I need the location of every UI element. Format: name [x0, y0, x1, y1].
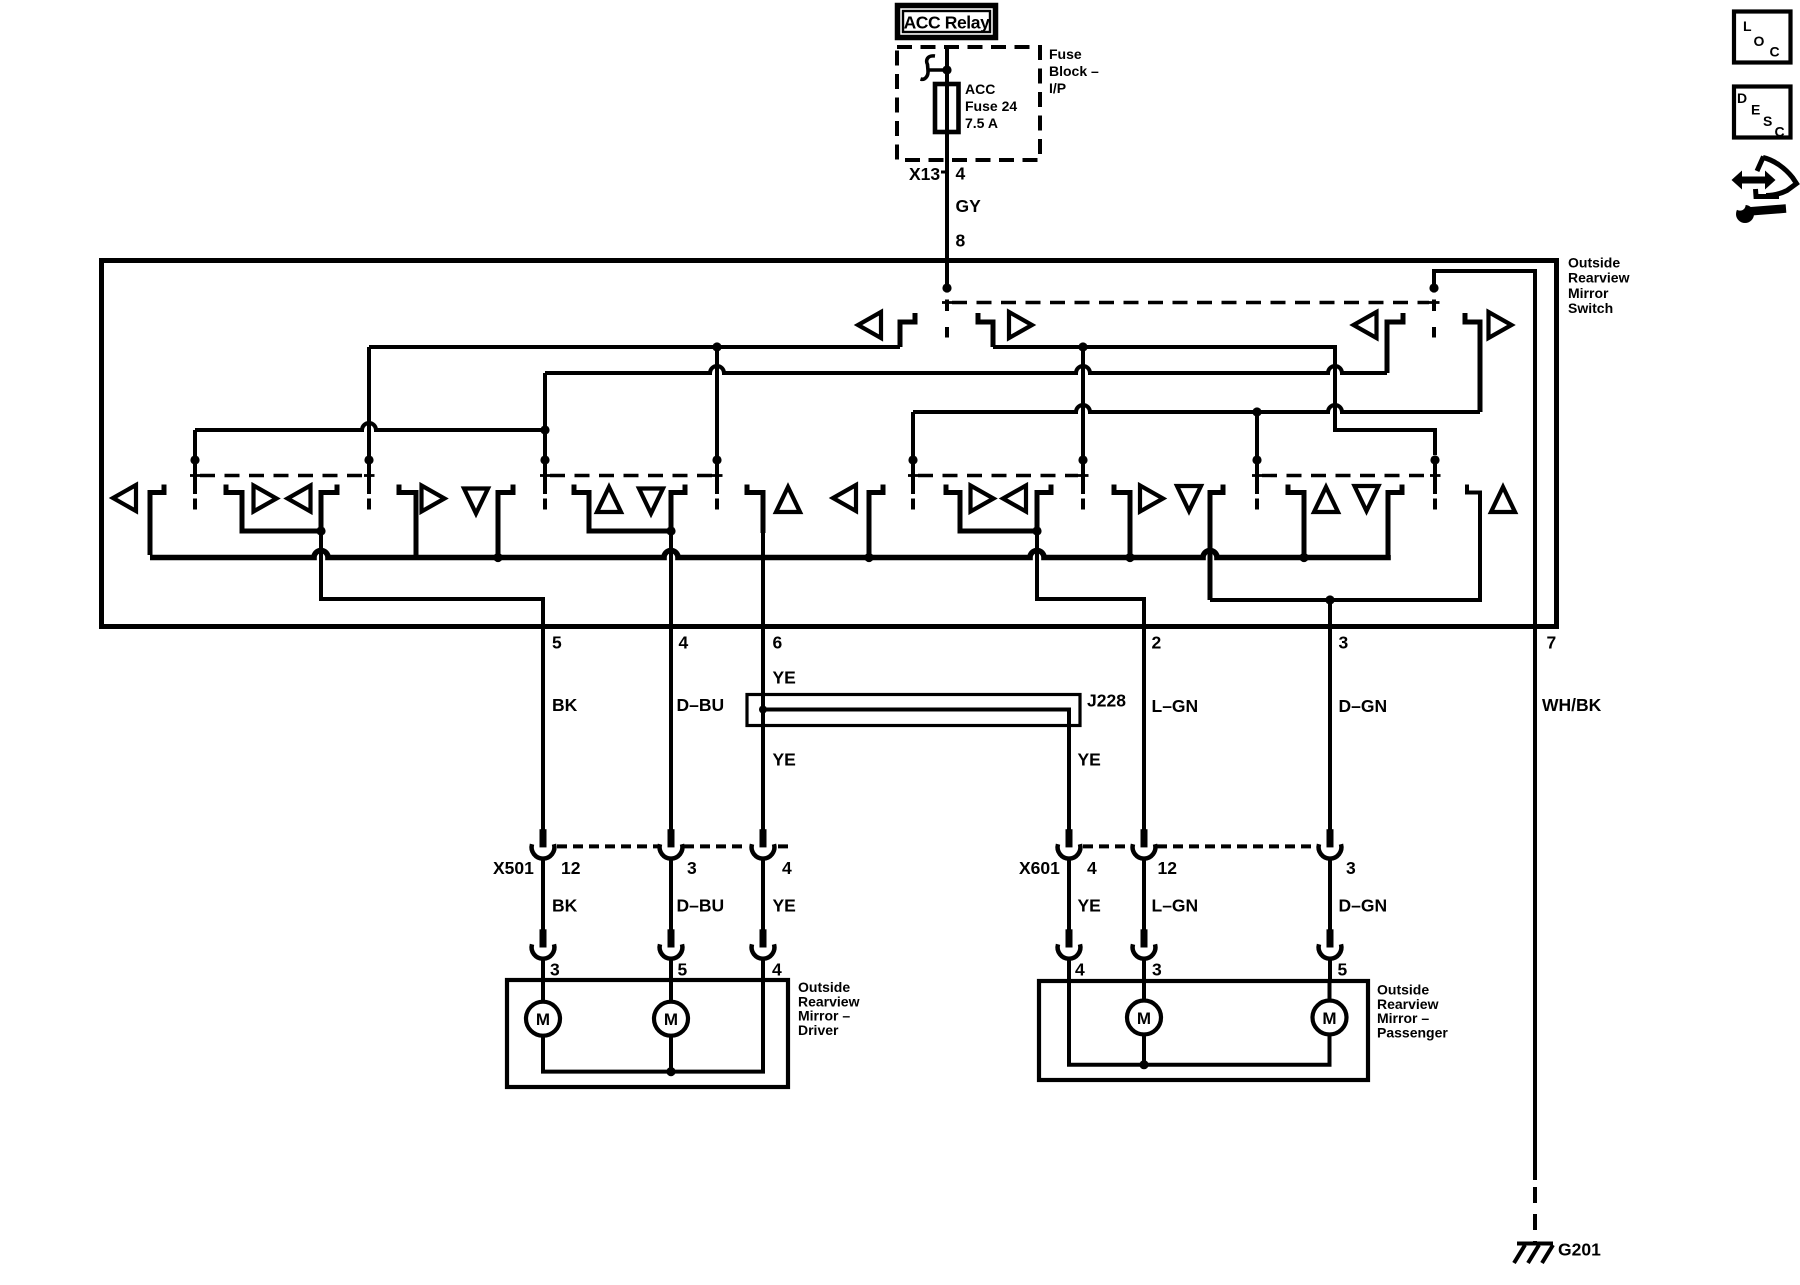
relay contact switch arm [921, 56, 948, 79]
mirror connector terminal at 763 [752, 929, 775, 958]
wire riser pole P5 [911, 412, 915, 457]
ground G201 [1514, 1244, 1553, 1264]
svg-text:E: E [1751, 102, 1760, 118]
svg-text:GY: GY [956, 196, 982, 216]
ACC Relay label box [898, 6, 996, 38]
svg-text:Fuse 24: Fuse 24 [965, 98, 1017, 114]
svg-text:3: 3 [1339, 633, 1349, 653]
junction node pin3 [1325, 595, 1334, 604]
svg-text:12: 12 [1158, 858, 1178, 878]
wire segment to mirror connector at 1069 [1067, 859, 1071, 931]
label ACC Fuse 24 7.5 A [965, 81, 1017, 131]
junction node pin5 takeoff [316, 526, 325, 535]
triangle arrow up (passenger single) [1491, 487, 1515, 512]
wire net E: P1 to P3 (y430) [195, 423, 545, 430]
triangle arrow down [639, 489, 663, 514]
triangle arrow right [1140, 486, 1163, 512]
junction node on fuse wire [942, 65, 951, 74]
svg-text:2: 2 [1152, 633, 1162, 653]
wire pin 7 vertical WH/BK [1533, 269, 1537, 1180]
svg-text:D–GN: D–GN [1339, 696, 1388, 716]
svg-text:BK: BK [552, 896, 578, 916]
svg-text:M: M [1322, 1009, 1336, 1028]
wire riser pole P2 [367, 347, 371, 457]
fuse ACC Fuse 24 7.5 A [935, 84, 959, 132]
wire stub into mirror at 1330 [1328, 959, 1332, 982]
label Outside Rearview Mirror - Driver [798, 979, 860, 1038]
coupling P3-P4 dashed link [550, 474, 712, 477]
triangle arrow down [1177, 486, 1201, 511]
wire stub into mirror at 671 [669, 959, 673, 982]
svg-text:D–BU: D–BU [677, 695, 725, 715]
wire segment to mirror connector at 1144 [1142, 859, 1146, 931]
connector X501 dashed gang line [557, 844, 792, 848]
wire to pin 4 D-BU [669, 531, 673, 830]
svg-text:L–GN: L–GN [1152, 696, 1199, 716]
pole of left top switch (from fuse) [942, 283, 953, 337]
svg-text:Rearview: Rearview [1568, 270, 1630, 286]
wire riser pole P1 [193, 430, 197, 457]
wire net D: P5/P7 to top-right pair right contact (y412) [913, 405, 1480, 412]
triangle arrow left [288, 486, 311, 512]
svg-text:YE: YE [1078, 896, 1101, 916]
wire net A: P2/P4 to top-left contact (y347 left) [369, 345, 900, 349]
Outside Rearview Mirror Switch box [102, 261, 1557, 627]
svg-text:4: 4 [956, 164, 966, 184]
wire pass motor2 top [1328, 983, 1332, 1001]
switch contact right of top-right pair [1465, 313, 1480, 412]
svg-text:7: 7 [1547, 633, 1557, 653]
svg-text:ACC Relay: ACC Relay [904, 13, 991, 33]
svg-text:4: 4 [679, 633, 689, 653]
switch contact left of top-left pair [900, 313, 915, 347]
wire to pin 2 L-GN [1037, 531, 1144, 830]
svg-text:ACC: ACC [965, 81, 995, 97]
wire motor1 top [541, 982, 545, 1002]
svg-text:I/P: I/P [1049, 80, 1066, 96]
triangle arrow right of top-right pair [1489, 312, 1512, 338]
svg-text:3: 3 [687, 858, 697, 878]
motor M passenger left [1127, 1001, 1161, 1035]
coupling P1-P2 dashed link [200, 474, 364, 477]
switch contact pair UD1 passenger, left [1114, 485, 1130, 556]
svg-text:YE: YE [773, 750, 796, 770]
svg-text:3: 3 [1152, 960, 1162, 980]
svg-text:M: M [664, 1010, 678, 1029]
switch contact pair UD2 driver, left [574, 485, 668, 532]
wire common bus across switch [150, 551, 1388, 558]
junction node pin4 takeoff [666, 526, 675, 535]
Outside Rearview Mirror Driver box [507, 980, 788, 1087]
pole P2 [364, 455, 375, 509]
switch contact single-right driver [747, 485, 763, 534]
coupling P7-P8 dashed link [1262, 474, 1430, 477]
Outside Rearview Mirror Passenger box [1039, 981, 1368, 1080]
junction node P7 top [1252, 407, 1261, 416]
coupling P5-P6 dashed link [918, 474, 1078, 477]
wire segment to mirror connector at 763 [761, 859, 765, 931]
svg-text:4: 4 [1087, 858, 1097, 878]
junction node P4 top [712, 342, 721, 351]
wire riser pole P4 [715, 347, 719, 457]
triangle arrow left (driver mirror left) [113, 485, 136, 511]
junction node pin2 takeoff [1032, 526, 1041, 535]
triangle arrow up [1314, 487, 1338, 512]
connector X501 terminal at 543 [532, 829, 555, 858]
motor M driver left [526, 1002, 560, 1036]
svg-text:Switch: Switch [1568, 300, 1613, 316]
wire stub into mirror at 763 [761, 959, 765, 982]
Fuse Block - I/P dashed box [897, 47, 1040, 160]
triangle arrow left [1003, 486, 1026, 512]
svg-text:YE: YE [1078, 750, 1101, 770]
connector X501 terminal at 671 [660, 829, 683, 858]
svg-text:Passenger: Passenger [1377, 1024, 1448, 1040]
triangle arrow right [422, 486, 445, 512]
motor M passenger right [1313, 1001, 1347, 1035]
switch contact pair L/R driver, right [321, 485, 337, 532]
pole P7 [1252, 455, 1263, 509]
svg-text:BK: BK [552, 695, 578, 715]
svg-text:YE: YE [773, 668, 796, 688]
svg-text:12: 12 [561, 858, 581, 878]
triangle arrow left of top-right pair [1354, 312, 1377, 338]
wire riser pole P3 [543, 373, 547, 457]
svg-text:4: 4 [772, 960, 782, 980]
svg-text:D: D [1737, 90, 1747, 106]
wire motor returns to pin 4 driver [543, 982, 763, 1072]
svg-text:Fuse: Fuse [1049, 46, 1082, 62]
svg-text:5: 5 [678, 960, 688, 980]
mirror connector terminal at 1069 [1058, 929, 1081, 958]
svg-text:M: M [536, 1010, 550, 1029]
wire from relay through fuse down to switch pin 8 [945, 47, 949, 288]
wrench icon [1734, 199, 1786, 223]
switch contact pair UD2 passenger, left [1288, 485, 1304, 556]
svg-text:C: C [1775, 124, 1785, 140]
svg-text:WH/BK: WH/BK [1542, 695, 1602, 715]
switch contact right of top-left pair [978, 313, 993, 347]
triangle arrow right [971, 486, 994, 512]
mirror connector terminal at 671 [660, 929, 683, 958]
connector X501 terminal at 763 [752, 829, 775, 858]
label Outside Rearview Mirror Switch [1568, 255, 1630, 317]
wire pin 3 vertical [1328, 600, 1332, 830]
wire pin7 dashed tail [1533, 1187, 1537, 1242]
wire from right top pole to pin 7 riser [1434, 271, 1535, 288]
splice wire J228 [763, 710, 1069, 831]
svg-text:3: 3 [550, 960, 560, 980]
splice J228 box [747, 695, 1080, 726]
wire pass return bus to pin 4 [1069, 983, 1330, 1065]
junction node bus at 498 [493, 553, 502, 562]
svg-text:Outside: Outside [1568, 255, 1620, 271]
pole P4 [712, 455, 723, 509]
wire to pin 6 YE [761, 530, 765, 830]
DESC icon box [1734, 87, 1791, 140]
pole P6 [1078, 455, 1089, 509]
wire stub into mirror at 543 [541, 959, 545, 982]
svg-text:L–GN: L–GN [1152, 896, 1199, 916]
pole P1 [190, 455, 201, 509]
svg-text:Mirror: Mirror [1568, 285, 1609, 301]
wire pass motor1 bottom [1142, 1035, 1146, 1065]
svg-text:3: 3 [1346, 858, 1356, 878]
svg-text:YE: YE [773, 896, 796, 916]
wire segment to mirror connector at 671 [669, 859, 673, 931]
svg-text:Block –: Block – [1049, 63, 1099, 79]
switch contact pair L/R driver, left [226, 485, 318, 532]
connector X601 dashed gang line [1083, 844, 1316, 848]
row-1 mechanical coupling dashed link [952, 301, 1429, 304]
svg-text:M: M [1137, 1009, 1151, 1028]
triangle arrow up [776, 487, 800, 512]
wire to pin 5 BK [321, 531, 543, 830]
triangle arrow down [464, 489, 488, 514]
pole of right top switch [1429, 283, 1440, 337]
wire segment to mirror connector at 543 [541, 859, 545, 931]
mirror connector terminal at 1144 [1133, 929, 1156, 958]
connector X601 terminal at 1069 [1058, 829, 1081, 858]
svg-text:L: L [1743, 18, 1752, 34]
switch contact left of top-right pair [1387, 313, 1403, 373]
wire riser pole P7 [1255, 412, 1259, 457]
junction node bus at 1304 [1299, 553, 1308, 562]
connector X601 terminal at 1144 [1133, 829, 1156, 858]
wire motor2 bottom [669, 1036, 673, 1072]
junction node bus at 1130 [1125, 553, 1134, 562]
svg-text:S: S [1763, 113, 1772, 129]
switch contact pair UD1 driver, right [498, 485, 513, 556]
svg-text:6: 6 [773, 633, 783, 653]
svg-text:J228: J228 [1087, 691, 1126, 711]
mirror connector terminal at 1330 [1319, 929, 1342, 958]
svg-text:O: O [1754, 33, 1765, 49]
svg-text:D–GN: D–GN [1339, 896, 1388, 916]
triangle arrow up [597, 487, 621, 512]
wire pass motor1 top [1142, 983, 1146, 1001]
svg-text:7.5 A: 7.5 A [965, 115, 998, 131]
triangle arrow left (driver select) [858, 312, 881, 338]
triangle arrow right [254, 486, 277, 512]
svg-text:X13: X13 [909, 164, 940, 184]
svg-text:5: 5 [552, 633, 562, 653]
junction node pass return [1139, 1060, 1148, 1069]
switch contact pair UD1 passenger, right [1210, 485, 1223, 601]
wire riser pole P6 [1081, 347, 1085, 457]
wire stub into mirror at 1069 [1067, 959, 1071, 982]
svg-text:4: 4 [1075, 960, 1085, 980]
jump-to arrow icon [1732, 157, 1797, 197]
svg-text:C: C [1770, 44, 1780, 60]
wire segment to mirror connector at 1330 [1328, 859, 1332, 931]
pole P3 [540, 455, 551, 509]
switch contact pair UD2 passenger, right [1388, 485, 1402, 556]
switch contact single-left driver [150, 485, 164, 556]
connector X601 terminal at 1330 [1319, 829, 1342, 858]
svg-text:4: 4 [782, 858, 792, 878]
wire motor2 top [669, 982, 673, 1002]
label Fuse Block - I/P [1049, 46, 1099, 96]
wire to pin 3 D-GN and across to single-up contact [1210, 485, 1480, 601]
wire stub into mirror at 1144 [1142, 959, 1146, 982]
switch contact pair UD1 driver, left [399, 485, 416, 556]
triangle arrow right (passenger select) [1009, 312, 1032, 338]
pole P8 [1430, 455, 1441, 509]
junction node P6 top [1078, 342, 1087, 351]
svg-text:X601: X601 [1019, 858, 1060, 878]
label Outside Rearview Mirror - Passenger [1377, 982, 1448, 1041]
triangle arrow left (passenger mirror) [833, 485, 856, 511]
svg-text:Driver: Driver [798, 1022, 839, 1038]
junction node splice tap [759, 706, 767, 714]
junction node driver return [666, 1067, 675, 1076]
svg-text:G201: G201 [1558, 1240, 1601, 1260]
junction node bus at 869 [864, 553, 873, 562]
pole P5 [908, 455, 919, 509]
mirror connector terminal at 543 [532, 929, 555, 958]
connector X13 tick on wire [941, 171, 948, 174]
switch contact single-left passenger [869, 485, 883, 556]
svg-text:D–BU: D–BU [677, 896, 725, 916]
triangle arrow down [1355, 486, 1379, 511]
switch contact pair L/R passenger, left [946, 485, 1034, 532]
motor M driver right [654, 1002, 688, 1036]
svg-text:5: 5 [1338, 960, 1348, 980]
junction node P3 mid [540, 425, 549, 434]
svg-text:8: 8 [956, 231, 966, 251]
switch contact pair L/R passenger, right [1037, 485, 1051, 532]
switch contact pair UD2 driver, right [671, 485, 685, 532]
wire net C: P1/P3 riser to top-right pair left contact (y373) [545, 366, 1387, 373]
wire net B: top-right contact of pair1 to P6/P8 (y347 right) [993, 347, 1435, 455]
svg-text:X501: X501 [493, 858, 534, 878]
LOC icon box [1734, 12, 1791, 63]
